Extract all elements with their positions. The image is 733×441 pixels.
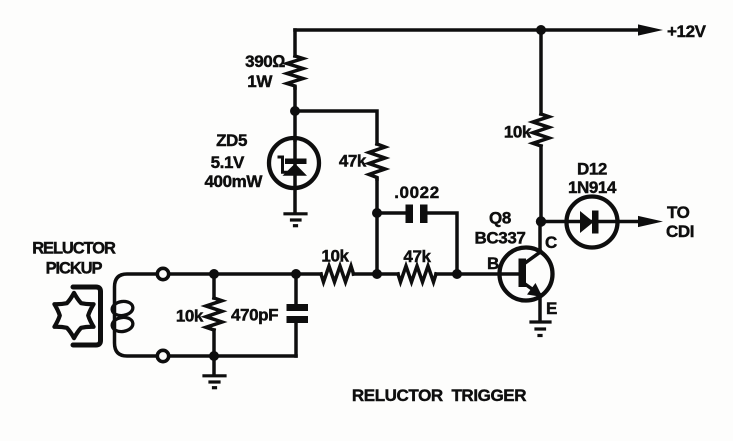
svg-text:1W: 1W [247, 72, 273, 91]
node top rail / 10k junction [536, 25, 546, 35]
wire emitter down to ground [538, 295, 542, 321]
zener ZD5 wire through [293, 140, 297, 188]
transistor Q8 collector stroke [525, 252, 541, 264]
bottom rail wire [163, 354, 296, 358]
zener ZD5 triangle [283, 164, 308, 176]
zener ZD5 lead bottom [293, 188, 297, 212]
svg-text:47k: 47k [339, 152, 367, 171]
node C (47k horiz right / cap branch) [452, 269, 462, 279]
resistor R 390ohm lead bottom [293, 88, 297, 111]
wire branch node A to 47k vertical [295, 111, 377, 144]
ground (under ZD5) [285, 214, 306, 226]
resistor R 390ohm body [287, 56, 303, 88]
node D (collector / D12 junction) [536, 216, 546, 226]
resistor 47k vertical body [369, 144, 385, 179]
wire collector up to node D [538, 222, 542, 253]
node E (pickup 10k junction top) [209, 269, 219, 279]
resistor 10k collector body [533, 114, 549, 146]
resistor R 390ohm lead top [293, 30, 297, 56]
node F (470pF junction top) [291, 269, 301, 279]
diode D12 circle [567, 197, 618, 248]
pickup terminal top [157, 268, 168, 279]
svg-text:10k: 10k [504, 123, 532, 142]
resistor 10k pickup body [206, 298, 222, 330]
wire node B to capacitor .0022 [377, 211, 405, 215]
svg-text:.0022: .0022 [394, 183, 440, 202]
svg-text:BC337: BC337 [475, 229, 526, 248]
svg-text:390Ω: 390Ω [245, 52, 285, 71]
resistor 10k horizontal body [321, 266, 354, 282]
transistor Q8 circle [500, 248, 553, 301]
resistor 47k horizontal body [398, 266, 436, 282]
svg-text:RELUCTOR TRIGGER: RELUCTOR TRIGGER [352, 386, 526, 405]
node G (mid rail / 47k vert junction) [372, 269, 382, 279]
svg-text:470pF: 470pF [231, 306, 278, 325]
zener ZD5 bent bar mark [279, 157, 289, 172]
diode D12 cathode bar [592, 211, 599, 234]
zener ZD5 circle [269, 138, 319, 188]
svg-text:47k: 47k [403, 247, 431, 266]
svg-text:RELUCTOR: RELUCTOR [32, 240, 116, 258]
resistor 10k collector lead top [539, 30, 543, 114]
zener ZD5 lead top [293, 111, 297, 140]
reluctor pole bracket [73, 287, 101, 345]
svg-text:ZD5: ZD5 [216, 131, 247, 150]
svg-text:PICKUP: PICKUP [46, 260, 103, 278]
transistor Q8 base bar [519, 259, 527, 288]
pickup coil loop 2 [111, 316, 134, 333]
transistor Q8 emitter stroke [525, 284, 541, 295]
node A (390ohm / ZD5 / 47k junction) [290, 106, 300, 116]
svg-text:CDI: CDI [666, 222, 694, 241]
capacitor 470pF bottom lead [294, 323, 298, 356]
wire 10k to 47k [354, 272, 399, 276]
svg-text:5.1V: 5.1V [211, 153, 245, 172]
svg-text:C: C [545, 233, 557, 252]
arrowhead TO CDI [638, 216, 663, 227]
node H (bottom rail / 10k / ground) [209, 351, 219, 361]
svg-text:10k: 10k [176, 307, 204, 326]
zener ZD5 cathode bar [285, 159, 307, 165]
wire base from node C [457, 272, 519, 276]
pickup terminal bottom [157, 350, 168, 361]
capacitor 470pF plates [287, 304, 309, 323]
wire capacitor .0022 to mid rail [428, 213, 458, 274]
capacitor 470pF top lead [294, 274, 298, 304]
svg-text:10k: 10k [321, 247, 349, 266]
svg-text:Q8: Q8 [489, 209, 511, 228]
resistor 10k pickup lead top [212, 274, 216, 298]
pickup coil [115, 274, 158, 356]
arrowhead +12V [638, 24, 663, 35]
ground (emitter) [531, 322, 550, 336]
diode D12 wire through [567, 220, 618, 224]
wire 47k to node C [436, 272, 457, 276]
wire 47k bottom to node B [375, 179, 379, 213]
svg-text:E: E [546, 299, 557, 318]
wire top +12V rail [295, 28, 646, 32]
wire ground stub [212, 356, 216, 374]
wire node D to diode D12 [541, 220, 567, 224]
svg-text:1N914: 1N914 [568, 178, 617, 197]
wire node B down to mid rail [375, 213, 379, 274]
ground (bottom rail) [204, 376, 225, 388]
reluctor wheel star [54, 293, 93, 338]
transistor Q8 emitter arrowhead [527, 283, 543, 297]
svg-text:B: B [487, 254, 499, 273]
pickup coil loop 1 [111, 300, 134, 317]
node B (47k / .0022 junction) [372, 208, 382, 218]
svg-text:+12V: +12V [667, 22, 707, 41]
svg-text:400mW: 400mW [204, 172, 263, 191]
diode D12 triangle [580, 211, 594, 233]
resistor 10k pickup lead bottom [212, 330, 216, 356]
capacitor C .0022 plates [406, 205, 428, 224]
mid rail wire (pickup to base) [163, 272, 321, 276]
resistor 10k collector lead bottom [539, 146, 543, 222]
wire D12 to CDI [618, 220, 646, 224]
svg-text:TO: TO [667, 203, 690, 222]
svg-text:D12: D12 [577, 160, 607, 179]
